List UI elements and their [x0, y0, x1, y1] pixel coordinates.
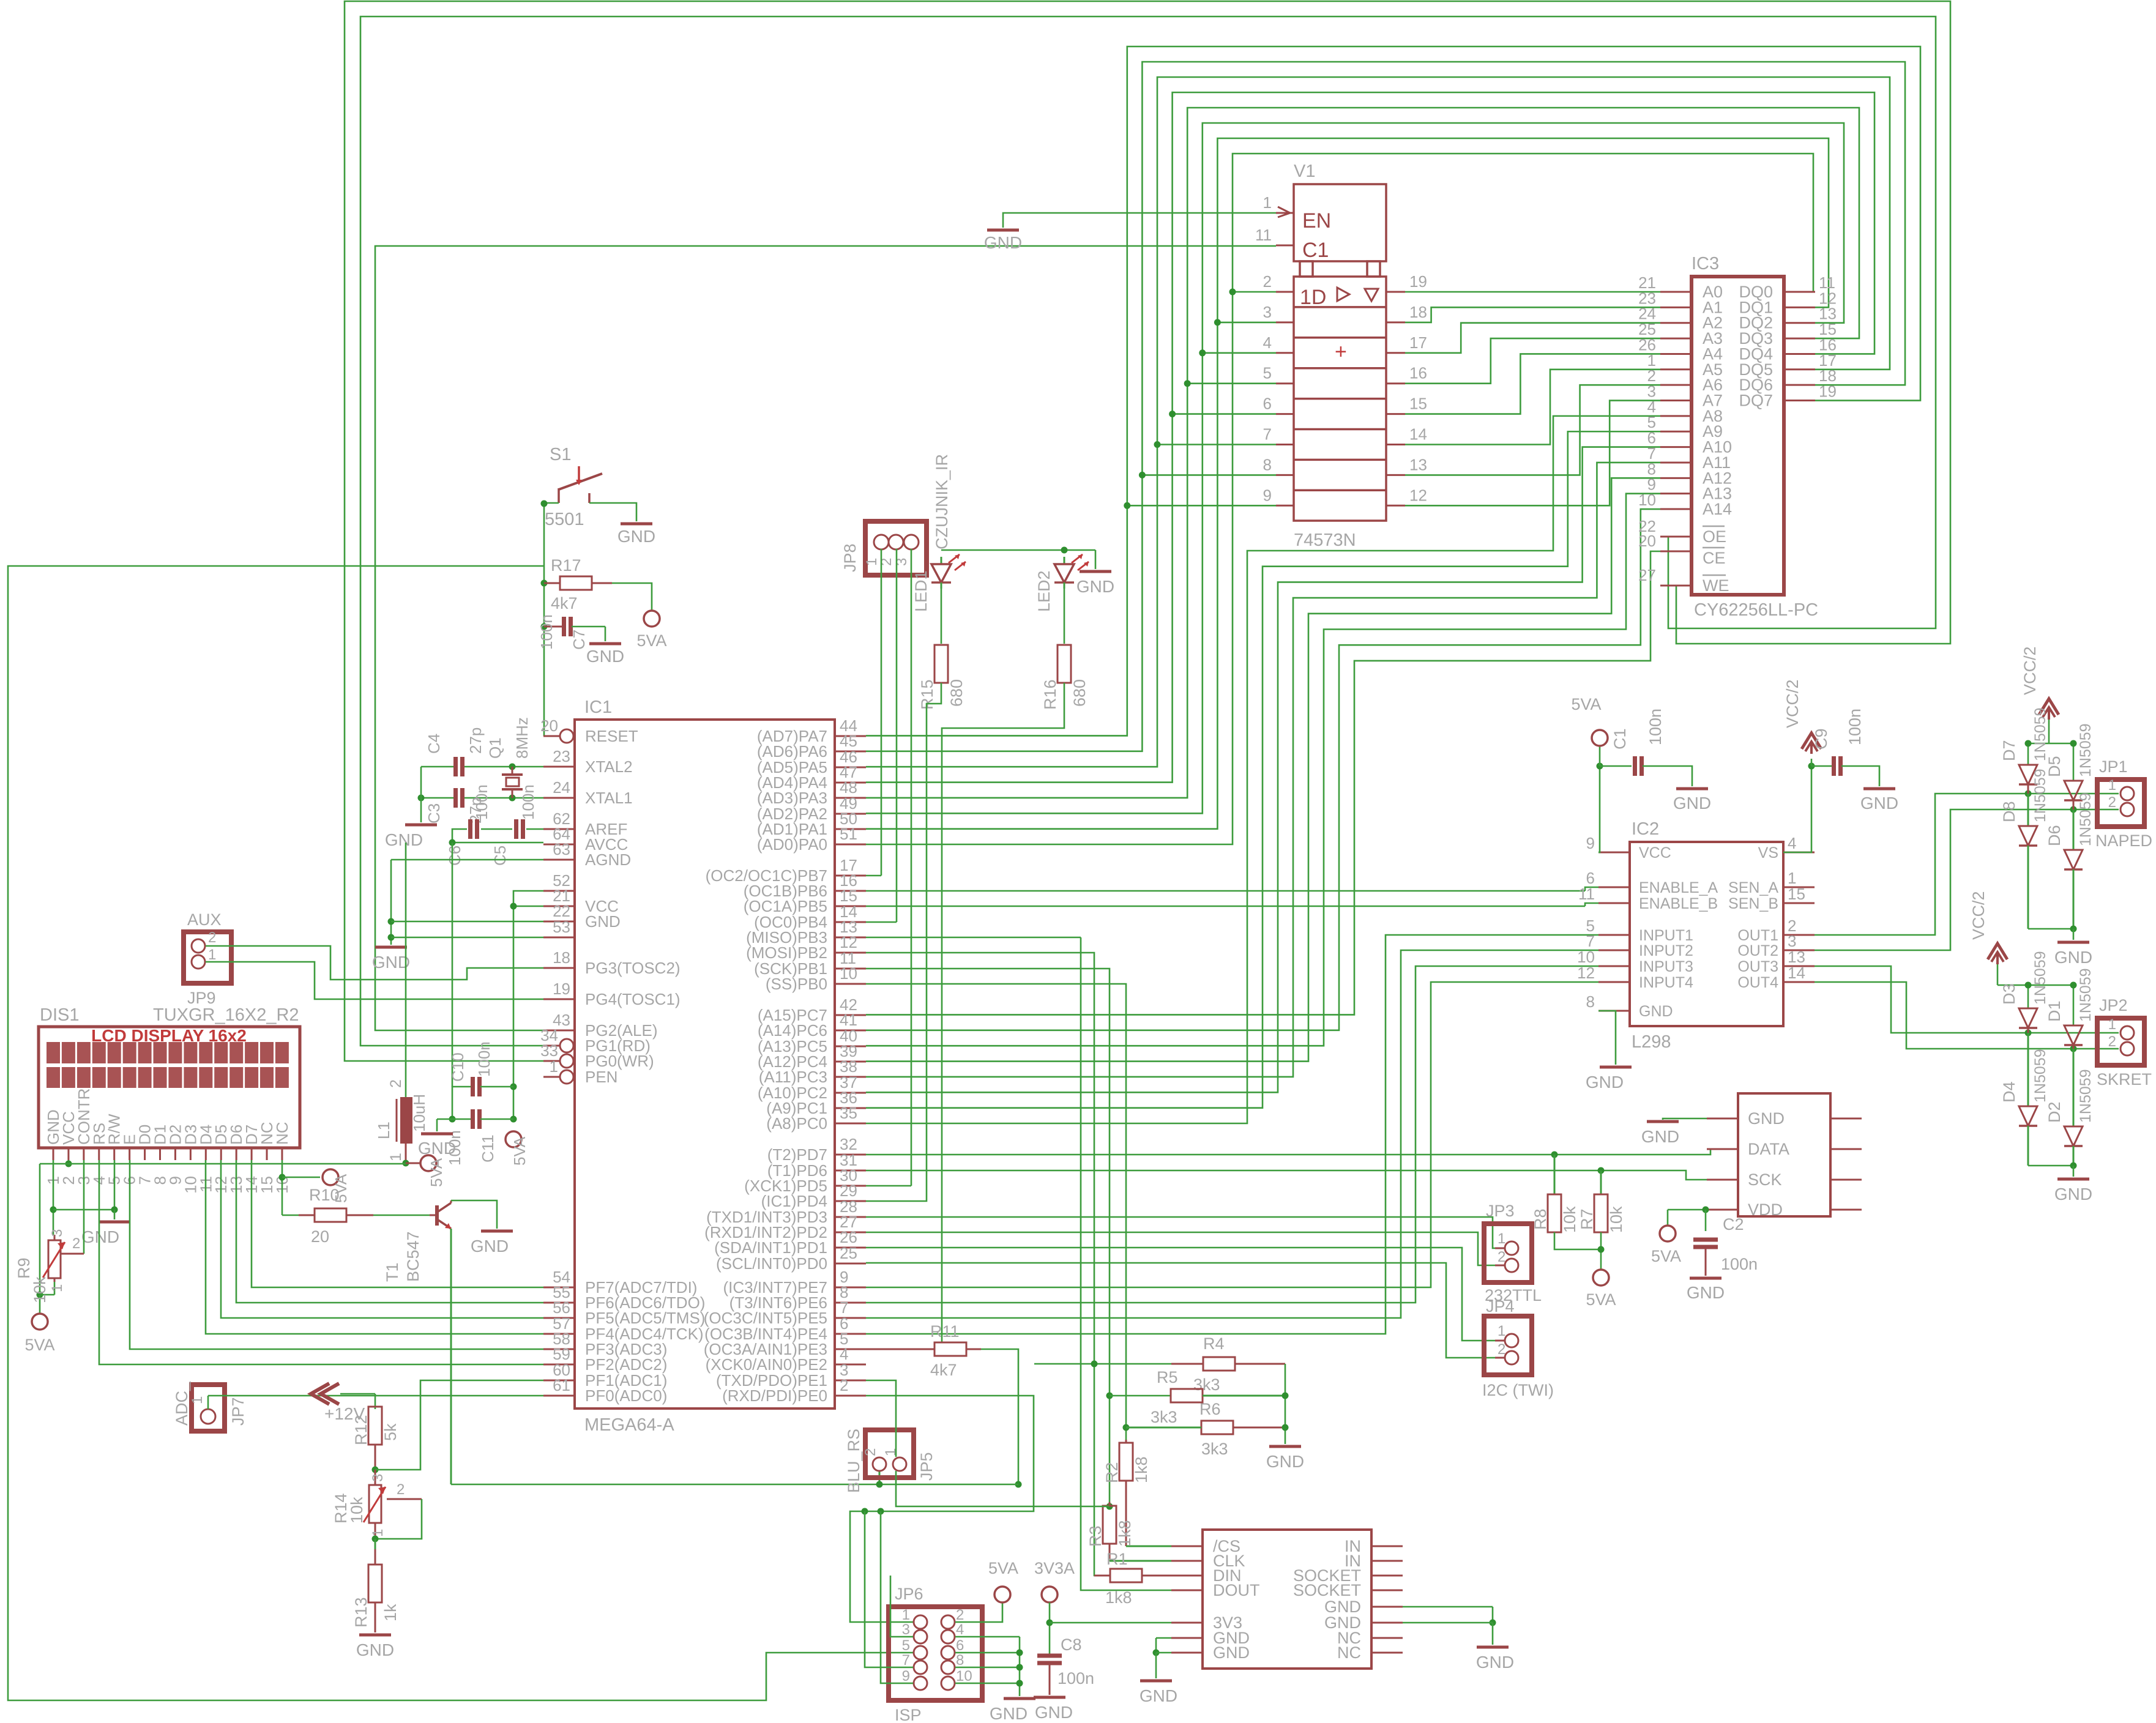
svg-text:A14: A14 [1703, 500, 1732, 518]
wire A10 (PC2 to SRAM) [866, 447, 1660, 1093]
svg-text:VS: VS [1758, 844, 1778, 861]
wire XTAL1 net [418, 795, 544, 802]
svg-text:JP3: JP3 [1486, 1202, 1515, 1220]
SD right pin NC [1337, 1643, 1403, 1662]
connector JP2 SKRET [2097, 996, 2152, 1089]
svg-text:C1: C1 [1611, 728, 1629, 750]
resistor R7 10k [1578, 1170, 1625, 1233]
svg-text:GND: GND [471, 1237, 509, 1256]
svg-text:20: 20 [1638, 532, 1656, 550]
capacitor C10 100n [449, 1041, 513, 1122]
svg-text:20: 20 [311, 1227, 329, 1246]
svg-text:GND: GND [1586, 1073, 1624, 1092]
resistor R4 3k3 [1171, 1334, 1285, 1394]
wire A11 (PC3 to SRAM) [866, 463, 1660, 1077]
IC3 left pin A5 [1647, 351, 1723, 379]
V1 pin 1 EN [1263, 193, 1294, 217]
IC1 right pin 46 (AD5)PA5 [757, 748, 866, 776]
wire A8 (PC0 to SRAM) [866, 416, 1660, 1123]
svg-text:IC2: IC2 [1632, 819, 1659, 839]
wire AD5 bus (PA5 to 74573 pin to SRAM DQ5) [866, 77, 1890, 767]
svg-text:10k: 10k [1561, 1206, 1579, 1233]
svg-text:GND: GND [1860, 794, 1898, 813]
wire AVCC net [449, 839, 544, 1087]
IC3 right pin DQ5 [1739, 351, 1836, 379]
svg-text:NC: NC [273, 1122, 291, 1145]
supply 5VA at VCC rail [505, 1131, 529, 1166]
svg-text:(SS)PB0: (SS)PB0 [766, 975, 827, 993]
svg-text:1N5059: 1N5059 [2032, 707, 2049, 761]
wire R10 to T1 base [373, 1215, 437, 1216]
svg-text:14: 14 [1409, 425, 1427, 444]
IC1 left pin 53 NC [543, 918, 575, 937]
svg-text:3: 3 [370, 1474, 386, 1482]
resistor R2 1k8 [1103, 1440, 1171, 1546]
svg-text:BLU_RS: BLU_RS [845, 1429, 863, 1493]
V1 left pin 8 [1263, 455, 1294, 475]
potentiometer R14 10k [332, 1470, 405, 1539]
svg-text:INPUT2: INPUT2 [1639, 942, 1693, 959]
wire AD1 bus (PA1 to 74573 pin to SRAM DQ1) [866, 138, 1829, 829]
wire OUT1 to JP1-1 [1815, 791, 2119, 936]
svg-text:PG4(TOSC1): PG4(TOSC1) [585, 990, 681, 1008]
svg-text:2: 2 [1263, 272, 1272, 291]
svg-text:4: 4 [956, 1621, 964, 1638]
IC2 right pin 15 SEN_B [1728, 885, 1815, 912]
LCD pin 7 D0 [136, 1125, 154, 1185]
IC1 right pin 10 (SS)PB0 [766, 964, 866, 993]
svg-text:VDD: VDD [1748, 1200, 1783, 1219]
svg-text:2: 2 [840, 1376, 848, 1394]
wire +12V to R12 [340, 1394, 375, 1409]
IC IC2 L298 body [1630, 819, 1783, 1052]
wire VCC/2 rail upper diodes [2025, 720, 2077, 781]
switch S1 5501 [541, 445, 603, 529]
IC1 left pin 1 PEN [543, 1057, 617, 1086]
supply 5VA at L1 [420, 1155, 446, 1187]
svg-text:5k: 5k [381, 1423, 400, 1441]
IC1 left pin 63 AGND [543, 840, 631, 869]
svg-text:9: 9 [1586, 834, 1595, 852]
wire JP9-1 to PG4 [206, 962, 543, 999]
IC1 left pin 20 RESET [540, 716, 638, 745]
wire PE1 to JP5-1 [866, 1380, 896, 1457]
supply 5VA at ISP [988, 1559, 1018, 1602]
svg-text:20: 20 [540, 716, 558, 735]
svg-text:1: 1 [864, 558, 880, 566]
svg-text:100n: 100n [519, 784, 537, 820]
svg-text:3k3: 3k3 [1201, 1440, 1228, 1458]
supply 5VA at R17 [636, 611, 666, 650]
ground at R13 [356, 1635, 394, 1659]
svg-text:1: 1 [1498, 1230, 1505, 1247]
svg-text:2: 2 [387, 1079, 405, 1088]
wire SD GND left [1153, 1638, 1172, 1678]
svg-text:NAPED: NAPED [2095, 832, 2152, 850]
IC3 right pin DQ0 [1739, 274, 1835, 301]
wire PE0 to ISP [850, 1396, 1034, 1622]
wire A9 (PC1 to SRAM) [866, 431, 1660, 1107]
resistor R12 5k [352, 1407, 400, 1470]
svg-text:10k: 10k [348, 1497, 366, 1524]
ground at IC1 GND [372, 947, 410, 972]
connector JP3 232TTL [1484, 1202, 1542, 1304]
wire LED2 to R16 [1064, 586, 1065, 644]
svg-text:R4: R4 [1203, 1334, 1225, 1353]
svg-text:15: 15 [1788, 885, 1805, 903]
svg-text:GND: GND [586, 647, 624, 666]
IC2 left pin 5 INPUT1 [1586, 917, 1693, 944]
wire R14 wiper loop [372, 1499, 422, 1543]
IC1 right pin 17 (OC2/OC1C)PB7 [706, 856, 866, 885]
svg-text:2: 2 [1498, 1249, 1505, 1265]
ground at T1 [471, 1231, 513, 1256]
IC2 left pin 8 GND [1586, 992, 1673, 1020]
wire A13 (PC5 to SRAM) [866, 494, 1660, 1046]
svg-text:VCC/2: VCC/2 [1783, 679, 1802, 728]
svg-text:5501: 5501 [545, 510, 584, 529]
ground at C2 [1687, 1278, 1725, 1302]
svg-text:GND: GND [1641, 1127, 1679, 1146]
svg-text:R10: R10 [309, 1186, 340, 1204]
IC3 right pin DQ2 [1739, 305, 1836, 332]
svg-text:GND: GND [372, 953, 410, 972]
IC1 right pin 37 (A10)PC2 [758, 1073, 866, 1102]
svg-text:GND: GND [81, 1227, 119, 1246]
svg-text:GND: GND [1639, 1003, 1673, 1020]
resistor R6 3k3 [1126, 1400, 1285, 1458]
svg-text:100n: 100n [1646, 709, 1665, 745]
wire A2 (latch out to SRAM A2) [1405, 323, 1660, 353]
svg-text:C4: C4 [425, 734, 443, 754]
wire AGND net [388, 860, 544, 945]
svg-text:10uH: 10uH [410, 1094, 428, 1132]
IC1 right pin 39 (A12)PC4 [758, 1042, 866, 1071]
wire GND pins 22 53 [391, 921, 543, 937]
IC1 right pin 16 (OC1B)PB6 [744, 871, 866, 900]
wire C7 to ground [605, 627, 606, 641]
IC2 left pin 10 INPUT3 [1577, 948, 1693, 975]
wire R12 R14 junction to PF1 [372, 1380, 544, 1473]
V1 right pin 15 [1386, 395, 1427, 414]
svg-text:VCC/2: VCC/2 [1969, 891, 1988, 940]
LCD pin 13 D6 [227, 1125, 245, 1194]
wire LCD GND net [50, 1160, 118, 1235]
LED LED1 [912, 554, 966, 612]
wire A0 (latch out to SRAM A0) [1405, 291, 1660, 293]
svg-text:R13: R13 [352, 1597, 370, 1628]
svg-text:3: 3 [49, 1229, 65, 1237]
IC2 right pin 14 OUT4 [1737, 964, 1815, 991]
IC3 right pin DQ1 [1739, 289, 1836, 316]
svg-text:1k: 1k [381, 1604, 400, 1621]
svg-text:SOCKET: SOCKET [1293, 1581, 1361, 1599]
svg-text:PF0(ADC0): PF0(ADC0) [585, 1386, 667, 1405]
wire OUT4 to JP2-2 [1815, 982, 2119, 1052]
IC1 right pin 14 (OC0)PB4 [754, 902, 866, 931]
svg-text:GND: GND [1213, 1643, 1250, 1662]
svg-text:XTAL2: XTAL2 [585, 757, 633, 776]
svg-text:IC1: IC1 [584, 698, 612, 717]
svg-text:IC3: IC3 [1692, 254, 1719, 274]
svg-text:25: 25 [840, 1244, 857, 1262]
IC2 left pin 6 ENABLE_A [1586, 869, 1718, 896]
LCD pin 16 NC [273, 1122, 291, 1193]
IC2 right pin 2 OUT1 [1737, 917, 1815, 944]
svg-text:4: 4 [1263, 333, 1272, 352]
IC3 left pin A9 [1647, 413, 1723, 441]
svg-text:JP5: JP5 [917, 1452, 936, 1481]
LCD pin 11 D4 [196, 1125, 215, 1193]
svg-text:1N5059: 1N5059 [2077, 792, 2094, 846]
LCD pin 6 E [121, 1134, 139, 1185]
IC2 right pin 3 OUT2 [1737, 932, 1815, 959]
svg-text:2: 2 [862, 1448, 879, 1456]
svg-text:R5: R5 [1157, 1368, 1178, 1386]
IC1 right pin 44 (AD7)PA7 [757, 716, 866, 745]
IC1 right pin 38 (A11)PC3 [759, 1057, 866, 1086]
ground at S1 [617, 524, 655, 546]
ground at C1 [1673, 789, 1711, 813]
SD right pin GND [1324, 1613, 1403, 1632]
supply 5VA at RF VDD [1651, 1226, 1681, 1265]
diode D3 1N5059 [2000, 951, 2049, 1033]
IC1 right pin 51 (AD0)PA0 [757, 825, 866, 854]
wire A12 (PC4 to SRAM) [866, 478, 1660, 1061]
LCD pin 5 R/W [105, 1114, 124, 1185]
svg-text:D7: D7 [2000, 740, 2018, 761]
svg-text:1: 1 [1498, 1323, 1505, 1339]
IC1 left pin 59 PF2(ADC2) [543, 1345, 667, 1374]
IC RF receiver body [1738, 1093, 1830, 1216]
resistor R3 1k8 [1086, 1502, 1171, 1561]
wire INPUT4 from PE7 [866, 982, 1598, 1287]
SD right pin IN [1345, 1537, 1403, 1555]
svg-text:2: 2 [208, 929, 216, 946]
svg-text:D4: D4 [2000, 1081, 2018, 1103]
svg-text:GND: GND [1076, 577, 1114, 596]
IC2 right pin 1 SEN_A [1728, 869, 1815, 896]
capacitor C4 27p [425, 728, 485, 776]
svg-text:23: 23 [553, 747, 570, 765]
svg-text:100n: 100n [1057, 1669, 1094, 1688]
svg-text:D8: D8 [2000, 801, 2018, 822]
LCD pin 1 GND [44, 1109, 62, 1185]
svg-text:1N5059: 1N5059 [2032, 768, 2049, 822]
IC V1 74573N latch [1294, 162, 1386, 550]
IC3 left pin A10 [1647, 429, 1733, 456]
resistor R11 4k7 [866, 1322, 981, 1379]
LCD pin 14 D7 [242, 1125, 261, 1194]
diode D5 1N5059 [2045, 723, 2094, 809]
wire LCD RS to PF2 [99, 1160, 543, 1364]
svg-text:63: 63 [553, 840, 570, 858]
SD right pin GND [1324, 1598, 1403, 1616]
supply VCC/2 at D7 D5 [2021, 646, 2059, 720]
V1 left pin 2 [1263, 272, 1294, 292]
svg-text:1: 1 [550, 1057, 558, 1076]
svg-text:7: 7 [902, 1652, 910, 1669]
svg-text:INPUT3: INPUT3 [1639, 958, 1693, 975]
IC1 left pin 54 PF7(ADC7/TDI) [543, 1268, 697, 1297]
wire A3 (latch out to SRAM A3) [1405, 338, 1660, 384]
IC1 right pin 3 (TXD/PDO)PE1 [716, 1361, 866, 1390]
RF pin DATA [1707, 1140, 1862, 1158]
svg-text:R2: R2 [1103, 1462, 1121, 1483]
IC1 right pin 12 (MOSI)PB2 [746, 933, 866, 962]
wire SCL to JP4 [866, 1263, 1505, 1358]
wire ALE net (PG2 to 74573 C1) [375, 246, 1276, 1030]
wire JP7 to PF0 [208, 1396, 543, 1409]
diode D1 1N5059 [2045, 968, 2094, 1049]
wire A15 (PC7 to SRAM) [866, 551, 1660, 1014]
wire L1 to 5VA [406, 1163, 420, 1164]
svg-text:1: 1 [2108, 777, 2116, 794]
SD right pin IN [1345, 1552, 1403, 1570]
svg-text:PEN: PEN [585, 1068, 617, 1086]
svg-text:27p: 27p [466, 728, 485, 754]
svg-text:GND: GND [1035, 1703, 1073, 1722]
IC1 right pin 26 (SDA/INT1)PD1 [714, 1228, 866, 1257]
svg-text:GND: GND [1748, 1109, 1785, 1128]
wire LCD D7 to PF7 [252, 1160, 543, 1287]
svg-text:L1: L1 [375, 1122, 393, 1139]
resistor R1 1k8 [1094, 1550, 1171, 1607]
wire RF GND pin [1663, 1118, 1707, 1120]
svg-text:TUXGR_16X2_R2: TUXGR_16X2_R2 [153, 1005, 299, 1025]
svg-text:24: 24 [553, 778, 570, 797]
LCD display DIS1 TUXGR_16X2_R2 [39, 1005, 300, 1148]
svg-text:2: 2 [397, 1481, 405, 1498]
svg-text:1k8: 1k8 [1132, 1456, 1151, 1483]
IC1 right pin 5 (OC3A/AIN1)PE3 [704, 1330, 866, 1358]
svg-text:SEN_A: SEN_A [1728, 879, 1778, 896]
svg-text:3k3: 3k3 [1193, 1375, 1220, 1394]
svg-text:D6: D6 [2045, 825, 2064, 846]
wire AD4 bus (PA4 to 74573 pin to SRAM DQ4) [866, 92, 1874, 783]
svg-text:10: 10 [840, 964, 857, 983]
svg-text:CE: CE [1703, 549, 1726, 567]
wire S1 to ground [589, 503, 636, 521]
resistor R17 4k7 [541, 556, 613, 612]
svg-text:100n: 100n [1846, 709, 1864, 745]
svg-text:GND: GND [418, 1139, 456, 1158]
V1 right pin 18 [1386, 303, 1427, 322]
svg-text:9: 9 [902, 1668, 910, 1684]
svg-text:D1: D1 [2045, 1000, 2064, 1022]
IC1 left pin 58 PF3(ADC3) [543, 1330, 667, 1358]
ground at RF [1641, 1122, 1679, 1146]
svg-text:(AD0)PA0: (AD0)PA0 [757, 835, 827, 854]
ground at upper diodes [2054, 942, 2092, 967]
svg-text:AGND: AGND [585, 850, 631, 869]
IC1 right pin 8 (T3/INT6)PE6 [729, 1283, 866, 1312]
wire AD7 bus (PA7 to 74573 pin to SRAM DQ7) [866, 47, 1920, 735]
LCD pin 3 CONTR [75, 1089, 93, 1185]
ground at LEDs [1076, 571, 1114, 596]
wire INPUT2 from PE5 [866, 950, 1598, 1318]
V1 right pin 14 [1386, 425, 1427, 445]
svg-text:1N5059: 1N5059 [2077, 723, 2094, 777]
IC1 left pin 64 AVCC [543, 825, 628, 854]
IC2 right pin 4 VS [1758, 834, 1815, 861]
svg-text:SCK: SCK [1748, 1170, 1782, 1189]
svg-text:GND: GND [585, 912, 621, 931]
IC SD card socket body [1203, 1530, 1371, 1669]
ground at C9 [1860, 789, 1898, 813]
wire LED supply [941, 547, 1095, 570]
IC1 right pin 32 (T2)PD7 [767, 1135, 866, 1164]
wire R4 feed from MOSI [1034, 1361, 1171, 1368]
wire VS to C9 [1783, 759, 1833, 852]
svg-text:1k8: 1k8 [1116, 1520, 1134, 1547]
IC3 left pin A14 [1638, 491, 1732, 518]
wire R17 to 5VA [612, 583, 652, 610]
wire LCD CONTR to R9 wiper [60, 1160, 84, 1254]
wire TXD1 to JP3 [866, 1217, 1505, 1248]
IC IC3 CY62256LL-PC body [1692, 254, 1818, 620]
IC1 right pin 28 (TXD1/INT3)PD3 [706, 1197, 866, 1226]
IC1 right pin 41 (A14)PC6 [758, 1011, 866, 1040]
V1 left pin 6 [1263, 395, 1294, 414]
svg-text:INPUT4: INPUT4 [1639, 974, 1693, 991]
svg-text:(SCL/INT0)PD0: (SCL/INT0)PD0 [716, 1254, 827, 1273]
wire ENABLE_B line [866, 903, 1598, 906]
supply 5VA at C1 [1571, 695, 1608, 746]
wire ISP pin7 [862, 1508, 914, 1668]
svg-text:3: 3 [1263, 303, 1272, 321]
svg-text:ISP: ISP [895, 1706, 922, 1723]
wire C11 to ground [436, 1119, 438, 1131]
wire A14 (PC6 to SRAM) [866, 509, 1660, 1030]
svg-text:R17: R17 [551, 556, 581, 575]
LCD pin 12 D5 [212, 1125, 230, 1194]
IC1 left pin 62 AREF [543, 809, 627, 838]
wire lower diodes to ground [2028, 1163, 2077, 1177]
svg-text:CZUJNIK_IR: CZUJNIK_IR [933, 454, 951, 549]
ground at lower diodes [2054, 1179, 2092, 1204]
V1 right pin 19 [1386, 272, 1427, 292]
svg-text:11: 11 [1578, 885, 1595, 903]
svg-text:MEGA64-A: MEGA64-A [584, 1415, 674, 1435]
wire SD GND right [1403, 1607, 1496, 1645]
IC3 right pin DQ3 [1739, 320, 1836, 348]
svg-text:V1: V1 [1294, 162, 1315, 181]
svg-text:100n: 100n [472, 784, 491, 820]
svg-text:JP2: JP2 [2099, 996, 2128, 1014]
resistor R16 680 [1041, 645, 1089, 710]
wire XTAL2 net [421, 764, 543, 770]
svg-text:3k3: 3k3 [1151, 1408, 1177, 1426]
IC1 left pin 55 PF6(ADC6/TDO) [543, 1283, 705, 1312]
svg-text:XTAL1: XTAL1 [585, 789, 633, 807]
supply +12V arrow [311, 1383, 365, 1423]
svg-text:CY62256LL-PC: CY62256LL-PC [1694, 600, 1818, 620]
connector JP7 ADC [173, 1381, 247, 1431]
IC1 left pin 23 XTAL2 [543, 747, 633, 776]
wire PD6 to SCK [866, 1167, 1738, 1180]
wire MISO PB3 to SD DOUT [866, 937, 1171, 1590]
svg-text:2: 2 [956, 1607, 964, 1623]
wire AD2 bus (PA2 to 74573 pin to SRAM DQ2) [866, 123, 1844, 813]
resistor R10 20 [299, 1186, 373, 1246]
wire R7 R8 to 5VA [1554, 1232, 1605, 1270]
svg-text:19: 19 [553, 980, 570, 998]
IC1 left pin 22 GND [543, 902, 621, 931]
svg-text:BC547: BC547 [404, 1231, 422, 1282]
diode D2 1N5059 [2045, 1049, 2094, 1166]
IC3 left pin A0 [1638, 274, 1723, 301]
